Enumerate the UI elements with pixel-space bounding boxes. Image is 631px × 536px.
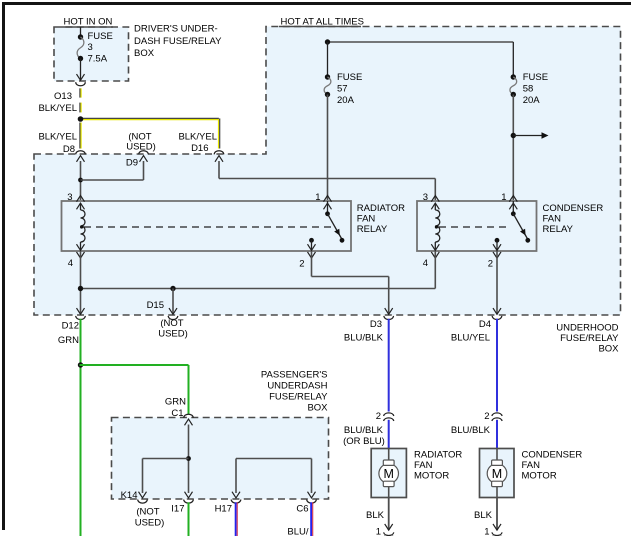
connector H17 — [215, 500, 241, 515]
wire ground bus pin4 to pin4 with D12 and D15 taps — [78, 251, 436, 314]
svg-text:(NOT: (NOT — [160, 318, 183, 329]
svg-text:D3: D3 — [370, 319, 382, 330]
svg-text:GRN: GRN — [165, 397, 186, 408]
fuse F57 20A — [324, 72, 362, 106]
svg-text:D16: D16 — [191, 143, 208, 154]
svg-text:4: 4 — [68, 258, 73, 269]
svg-text:O13: O13 — [54, 91, 72, 102]
svg-text:2: 2 — [488, 259, 493, 270]
relay coil — [77, 203, 86, 251]
svg-text:BLK: BLK — [366, 510, 385, 521]
svg-text:UNDERHOOD: UNDERHOOD — [556, 323, 618, 334]
svg-text:RELAY: RELAY — [357, 224, 388, 235]
svg-text:FUSE/RELAY: FUSE/RELAY — [269, 391, 328, 402]
wire D8 to radiator relay pin 3 with branch to D9 — [78, 161, 143, 200]
svg-text:FUSE/RELAY: FUSE/RELAY — [560, 333, 619, 344]
wire BLK/YEL from O13 to D8 and D16 — [78, 88, 220, 148]
svg-text:3: 3 — [423, 192, 428, 203]
passenger's underdash fuse/relay box — [112, 369, 329, 499]
svg-text:D9: D9 — [126, 158, 138, 169]
svg-text:RADIATOR: RADIATOR — [357, 203, 405, 214]
connector D9 (not used) — [126, 132, 156, 169]
svg-text:2: 2 — [376, 411, 381, 422]
svg-text:1: 1 — [315, 192, 320, 203]
wire BLU/BLK into condenser fan motor — [496, 420, 498, 449]
wire BLK below radiator fan motor — [366, 498, 389, 530]
fuse F58 20A — [510, 72, 548, 106]
connector D8 — [38, 132, 85, 162]
wire BLU/BLK into radiator fan motor — [388, 420, 390, 449]
pin 4 — [431, 252, 439, 258]
svg-text:PASSENGER'S: PASSENGER'S — [261, 369, 328, 380]
relay switch — [308, 201, 345, 251]
inline connector 2 radiator fan motor — [343, 411, 394, 447]
svg-text:CONDENSER: CONDENSER — [522, 450, 583, 461]
wire PUR below H17 — [235, 502, 237, 536]
svg-text:20A: 20A — [337, 95, 355, 106]
connector C1 — [165, 397, 193, 426]
svg-text:FUSE: FUSE — [88, 31, 113, 42]
svg-text:3: 3 — [88, 42, 93, 53]
wire C1 to K14 and I17 inside passenger box — [139, 425, 193, 498]
svg-text:FAN: FAN — [543, 213, 562, 224]
svg-text:FAN: FAN — [357, 213, 376, 224]
wire fuse 57 to radiator relay pin 1 — [327, 95, 329, 201]
svg-text:(NOT: (NOT — [136, 507, 159, 518]
svg-text:BOX: BOX — [598, 344, 619, 355]
svg-text:3: 3 — [67, 192, 72, 203]
svg-text:BLU/: BLU/ — [287, 527, 308, 536]
svg-text:BLU/BLK: BLU/BLK — [451, 425, 491, 436]
svg-text:FAN: FAN — [414, 460, 433, 471]
svg-text:RELAY: RELAY — [543, 224, 574, 235]
pin 3 — [431, 196, 439, 202]
connector D15 (not used) — [147, 300, 188, 340]
svg-text:BOX: BOX — [307, 402, 328, 413]
svg-text:USED): USED) — [135, 518, 165, 529]
wire GRN below I17 — [188, 502, 190, 536]
svg-text:DASH FUSE/RELAY: DASH FUSE/RELAY — [134, 36, 222, 47]
svg-text:USED): USED) — [126, 142, 156, 153]
fuse F3 7.5A — [77, 27, 113, 80]
relay control dashed link — [80, 225, 83, 228]
pin 1 — [324, 196, 332, 202]
svg-text:57: 57 — [337, 84, 348, 95]
radiator fan motor M — [371, 449, 462, 498]
connector C6 — [287, 500, 316, 536]
svg-text:MOTOR: MOTOR — [414, 470, 449, 481]
svg-text:H17: H17 — [215, 504, 232, 515]
relay control dashed link — [435, 225, 438, 228]
condenser fan relay — [417, 192, 603, 270]
connector D3 — [344, 308, 394, 343]
svg-text:2: 2 — [484, 411, 489, 422]
svg-text:M: M — [492, 467, 502, 481]
connector D16 — [178, 132, 223, 162]
svg-text:1: 1 — [484, 527, 489, 536]
svg-text:BLK: BLK — [474, 510, 493, 521]
connector D12 — [58, 308, 85, 346]
svg-text:BLU/BLK: BLU/BLK — [344, 425, 384, 436]
svg-text:HOT IN ON: HOT IN ON — [64, 17, 113, 28]
svg-text:1: 1 — [376, 527, 381, 536]
svg-text:FUSE: FUSE — [337, 72, 362, 83]
svg-text:DRIVER'S UNDER-: DRIVER'S UNDER- — [134, 24, 218, 35]
relay coil — [431, 203, 440, 251]
inline connector 2 condenser fan motor — [451, 411, 502, 436]
connector 1 radiator fan motor — [376, 524, 394, 536]
connector D4 — [451, 308, 502, 343]
svg-text:FAN: FAN — [522, 460, 541, 471]
svg-text:D4: D4 — [479, 319, 491, 330]
wire radiator relay pin 2 to D3 — [312, 251, 389, 314]
svg-text:D8: D8 — [63, 144, 75, 155]
wire D16 to condenser relay pin 3 — [219, 161, 435, 200]
connector I17 — [171, 500, 193, 515]
svg-text:2: 2 — [299, 259, 304, 270]
svg-text:D15: D15 — [147, 300, 164, 311]
pin 3 — [77, 196, 85, 202]
pin 2 — [493, 252, 501, 258]
connector K14 (not used) — [121, 490, 165, 529]
svg-text:1: 1 — [501, 192, 506, 203]
svg-text:C6: C6 — [296, 504, 308, 515]
svg-text:BOX: BOX — [134, 48, 155, 59]
wire BLU/YEL from D4 to condenser fan motor — [496, 319, 498, 412]
svg-text:BLU/BLK: BLU/BLK — [344, 332, 384, 343]
svg-text:CONDENSER: CONDENSER — [543, 203, 604, 214]
svg-text:BLU/YEL: BLU/YEL — [451, 332, 490, 343]
svg-text:UNDERDASH: UNDERDASH — [267, 380, 327, 391]
svg-text:C1: C1 — [171, 408, 183, 419]
relay switch — [493, 201, 530, 251]
wire condenser relay pin 2 to D4 — [496, 251, 498, 314]
connector O13 at driver's box exit — [38, 82, 85, 114]
wire PUR below C6 — [310, 502, 312, 536]
svg-text:58: 58 — [523, 84, 534, 95]
wire fuse 58 to condenser relay pin 1 — [511, 95, 549, 201]
svg-text:D12: D12 — [62, 321, 79, 332]
svg-text:HOT AT ALL TIMES: HOT AT ALL TIMES — [281, 17, 364, 28]
wire GRN from D12 to C1 and down — [78, 319, 189, 536]
wire battery feed to fuses 57 and 58 — [325, 39, 514, 77]
pin 1 — [509, 196, 517, 202]
connector 1 condenser fan motor — [484, 524, 502, 536]
underhood fuse/relay box — [34, 27, 621, 355]
radiator fan relay — [62, 192, 406, 270]
svg-text:(OR BLU): (OR BLU) — [343, 436, 385, 447]
svg-text:BLK/YEL: BLK/YEL — [178, 132, 217, 143]
wire BLK below condenser fan motor — [474, 498, 497, 530]
svg-text:GRN: GRN — [58, 335, 79, 346]
svg-text:M: M — [383, 467, 393, 481]
svg-text:4: 4 — [423, 258, 428, 269]
svg-text:FUSE: FUSE — [523, 72, 548, 83]
svg-text:USED): USED) — [158, 329, 188, 340]
svg-text:RADIATOR: RADIATOR — [414, 450, 462, 461]
wire BLU/BLK from D3 to radiator fan motor — [388, 319, 390, 412]
svg-text:I17: I17 — [171, 504, 184, 515]
driver's underdash fuse/relay box — [54, 24, 222, 81]
pin 4 — [77, 252, 85, 258]
svg-text:BLK/YEL: BLK/YEL — [38, 132, 77, 143]
wire jumper H17 to C6 inside passenger box — [232, 459, 316, 498]
svg-text:7.5A: 7.5A — [88, 54, 108, 65]
condenser fan motor M — [480, 449, 583, 498]
pin 2 — [308, 252, 316, 258]
svg-text:BLK/YEL: BLK/YEL — [38, 103, 77, 114]
svg-text:20A: 20A — [523, 95, 541, 106]
svg-text:MOTOR: MOTOR — [522, 470, 557, 481]
svg-text:K14: K14 — [121, 490, 138, 501]
